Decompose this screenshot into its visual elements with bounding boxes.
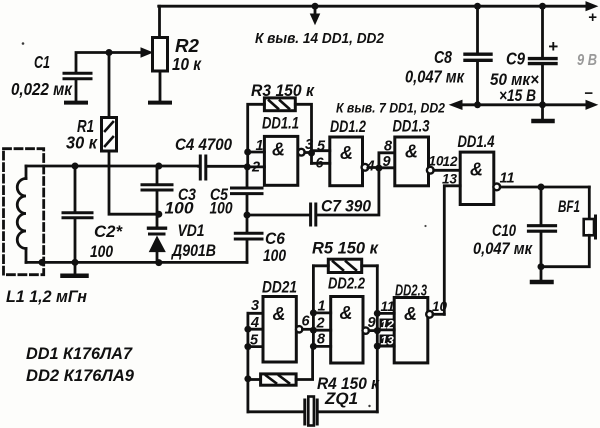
gate DD2.1 box	[263, 297, 296, 363]
wire BF1 right branch	[588, 187, 591, 218]
svg-text:0,047 мк: 0,047 мк	[473, 239, 533, 258]
svg-text:C4 4700: C4 4700	[175, 135, 232, 154]
svg-text:DD2 К176ЛА9: DD2 К176ЛА9	[26, 367, 135, 385]
node pin1	[310, 309, 317, 316]
svg-text:4: 4	[250, 315, 259, 331]
node L1 bottom	[39, 259, 46, 266]
pin 6 output bubble DD2.1	[296, 326, 302, 332]
pin 8 stub DD2.2	[313, 345, 330, 348]
svg-text:К выв. 7 DD1, DD2: К выв. 7 DD1, DD2	[336, 100, 445, 116]
pin 13 black DD2.3	[380, 335, 395, 346]
wire C7 to DD1.2 output node	[317, 169, 379, 215]
node top rail к выв.14	[312, 3, 319, 10]
wire R4 right leg	[296, 346, 313, 379]
wire C1 top to node	[76, 53, 108, 73]
svg-text:9: 9	[368, 315, 376, 331]
resistor R2	[153, 38, 168, 72]
node C9 bottom	[539, 101, 546, 108]
svg-text:0,047 мк: 0,047 мк	[405, 67, 465, 87]
svg-text:11: 11	[381, 299, 395, 314]
node DD1.1 out/DD1.2 in	[308, 150, 315, 157]
svg-text:С2*: С2*	[94, 223, 124, 241]
svg-text:5: 5	[250, 333, 259, 349]
node R3/pin1	[244, 149, 251, 156]
svg-text:8: 8	[384, 139, 393, 155]
svg-text:2: 2	[316, 316, 325, 332]
ground C10	[540, 267, 543, 280]
svg-text:1: 1	[318, 299, 326, 315]
svg-text:С7 390: С7 390	[321, 197, 371, 216]
ground C2	[74, 262, 77, 274]
svg-text:3: 3	[305, 137, 313, 153]
ground R2	[150, 101, 170, 105]
node C8 bottom	[474, 101, 481, 108]
wire R1 bottom down across main wire to VD1 node	[109, 151, 157, 214]
node pin13	[374, 343, 381, 350]
gate DD1.2 box	[330, 137, 363, 186]
wire R4 left lead	[248, 378, 261, 381]
svg-text:Д901В: Д901В	[170, 242, 216, 260]
svg-text:13: 13	[381, 334, 395, 348]
node pin2	[310, 327, 317, 334]
pin 9 stub DD1.3	[379, 166, 395, 169]
node DD1.2 out/C7/DD1.3 in	[375, 165, 382, 172]
svg-text:DD21: DD21	[262, 279, 297, 297]
node pin11	[374, 310, 381, 317]
svg-text:С10: С10	[492, 221, 516, 240]
svg-text:R2: R2	[175, 36, 199, 56]
svg-text:9: 9	[383, 154, 391, 170]
capacitor C6	[246, 215, 249, 262]
scan speck	[368, 405, 370, 407]
svg-text:С6: С6	[265, 230, 286, 248]
capacitor C10	[540, 187, 543, 267]
svg-text:+: +	[548, 37, 558, 56]
svg-text:DD1.4: DD1.4	[458, 132, 495, 151]
resistor R4	[261, 374, 297, 385]
pin 3 stub DD2.1	[248, 312, 263, 315]
wire minus rail	[461, 103, 588, 106]
wire R2 riser to rail	[158, 6, 161, 37]
gate DD2.3 box	[394, 298, 428, 363]
svg-text:0,022 мк: 0,022 мк	[11, 79, 73, 99]
svg-text:DD1.2: DD1.2	[330, 117, 366, 136]
svg-text:8: 8	[317, 332, 326, 348]
pin 11 output bubble DD1.4	[493, 184, 500, 191]
wire R5 leads	[313, 264, 377, 267]
pin 3 output bubble DD1.1	[298, 149, 305, 156]
wire DD2.1 input vertical	[246, 313, 249, 412]
capacitor C2	[74, 166, 77, 262]
wire R2 bottom	[159, 71, 162, 101]
pin 12 stub DD2.3	[377, 328, 394, 331]
svg-text:С9: С9	[506, 49, 525, 69]
node C10 top	[538, 184, 545, 191]
pin 8 stub DD1.3	[379, 153, 395, 168]
scan speck	[22, 42, 25, 45]
node pin8	[310, 343, 317, 350]
arrow right plus rail	[586, 2, 597, 11]
resistor R5	[328, 259, 361, 272]
node R1/C3/VD1	[155, 211, 162, 218]
pin 10 output bubble DD2.3	[426, 311, 433, 318]
svg-text:6: 6	[316, 156, 325, 172]
arrow left к выв.7	[450, 100, 462, 109]
pin 2 stub DD1.1	[248, 165, 265, 168]
wire DD1.3 out to DD1.4 pin12	[434, 169, 461, 172]
node C2 bottom	[72, 259, 79, 266]
svg-text:100: 100	[210, 200, 234, 218]
pin 12 black DD2.3	[380, 319, 395, 330]
node C5/C6/C7	[244, 212, 251, 219]
svg-text:11: 11	[500, 171, 515, 187]
pin 13 stub DD2.3	[377, 345, 394, 348]
svg-text:6: 6	[302, 314, 311, 330]
resistor R3	[264, 98, 295, 111]
svg-text:+: +	[588, 9, 597, 26]
svg-text:&: &	[470, 160, 483, 180]
wire node down to R1	[108, 53, 111, 118]
pin 5 stub DD2.1	[248, 345, 263, 348]
pin 6 stub DD1.2	[312, 162, 330, 165]
wire DD1.4 out to BF1	[500, 186, 589, 189]
ground C1	[66, 101, 86, 105]
capacitor C3	[156, 166, 159, 214]
svg-text:2: 2	[251, 160, 260, 176]
node C8 top	[474, 3, 481, 10]
gate DD1.3 box	[395, 137, 429, 186]
svg-text:&: &	[273, 304, 286, 324]
pin 5 stub DD1.2	[312, 149, 330, 152]
svg-text:DD2.2: DD2.2	[328, 276, 365, 293]
svg-text:4: 4	[366, 159, 375, 175]
wire ground bus bottom	[26, 261, 247, 264]
svg-text:С8: С8	[434, 47, 452, 67]
wire top power rail	[159, 5, 589, 8]
node C3 top	[155, 163, 162, 170]
svg-text:ZQ1: ZQ1	[324, 389, 358, 408]
pin 13 stub DD1.4 riser from DD2.3	[444, 186, 460, 314]
speaker BF1	[584, 219, 594, 235]
pin 1 stub DD1.1	[248, 151, 265, 154]
gate DD2.2 box	[331, 297, 363, 364]
svg-text:DD1 К176ЛА7: DD1 К176ЛА7	[26, 345, 133, 363]
wire main oscillator bus L1/C2/C3/C4	[26, 165, 199, 168]
node C4/C5/DD1.1 pin2	[244, 163, 251, 170]
svg-text:100: 100	[90, 243, 114, 261]
svg-text:С1: С1	[34, 52, 50, 72]
varicap VD1	[156, 214, 159, 227]
wire R5 right vertical down to bottom loop	[376, 266, 379, 412]
svg-text:&: &	[272, 140, 285, 160]
svg-text:13: 13	[442, 172, 458, 187]
svg-text:10 к: 10 к	[172, 54, 202, 74]
gate DD1.4 box	[460, 152, 494, 204]
svg-text:R3 150 к: R3 150 к	[251, 81, 315, 100]
pin 2 stub DD2.2	[313, 329, 330, 332]
svg-text:BF1: BF1	[558, 198, 580, 216]
node C10 bottom	[538, 263, 545, 270]
svg-text:DD2.3: DD2.3	[395, 283, 427, 300]
node C9 top	[539, 3, 546, 10]
svg-text:5: 5	[317, 139, 326, 155]
svg-text:×15 В: ×15 В	[499, 86, 536, 105]
capacitor C9 polarized	[541, 6, 544, 105]
pin 10 output bubble DD1.3	[427, 167, 434, 174]
svg-text:&: &	[340, 143, 353, 163]
svg-text:9 В: 9 В	[577, 52, 597, 69]
wire node to C7	[247, 214, 310, 217]
pin 9 output bubble DD2.2	[363, 327, 369, 333]
svg-text:DD1.1: DD1.1	[262, 114, 299, 133]
svg-text:&: &	[404, 304, 417, 324]
shield dashed box L1	[4, 149, 44, 275]
svg-text:L1 1,2 мГн: L1 1,2 мГн	[6, 288, 87, 306]
svg-text:VD1: VD1	[178, 222, 205, 240]
crystal ZQ1	[303, 400, 306, 424]
svg-text:12: 12	[381, 318, 395, 332]
wire arrow к выв.14	[314, 6, 317, 15]
scan speck	[424, 225, 426, 227]
wire C1 bottom	[75, 80, 78, 101]
svg-text:&: &	[340, 303, 353, 323]
inductor L1	[25, 166, 28, 179]
svg-text:12: 12	[443, 154, 459, 169]
capacitor C5	[246, 167, 249, 215]
pin 1 stub DD2.2	[313, 311, 330, 314]
capacitor C8	[476, 6, 479, 105]
svg-text:R5 150 к: R5 150 к	[312, 239, 379, 258]
svg-text:100: 100	[263, 247, 287, 265]
node VD1 bottom	[155, 259, 162, 266]
pin 4 output bubble DD1.2	[362, 164, 369, 171]
node pin4	[244, 326, 251, 333]
svg-text:3: 3	[251, 298, 259, 314]
svg-text:&: &	[405, 142, 418, 162]
node DD2.2 out	[374, 327, 381, 334]
svg-text:К выв. 14 DD1, DD2: К выв. 14 DD1, DD2	[255, 30, 385, 47]
capacitor C7	[311, 204, 316, 225]
svg-text:DD1.3: DD1.3	[393, 117, 430, 136]
wire node to R2 wiper arrow	[109, 51, 142, 54]
node R4 left	[244, 375, 251, 382]
svg-text:30 к: 30 к	[66, 133, 98, 153]
node C1/R2/R1 junction	[106, 49, 113, 56]
svg-text:10: 10	[432, 299, 448, 314]
wire DD2.2 input vertical / R5 left leg	[312, 266, 315, 347]
resistor R1	[102, 118, 117, 152]
ground C9	[541, 105, 544, 119]
wire R3 left leg	[248, 104, 265, 167]
svg-text:100: 100	[165, 200, 195, 218]
capacitor C1	[64, 73, 91, 78]
wire R3 right leg	[295, 104, 311, 163]
svg-text:−: −	[584, 85, 593, 102]
pin 4 stub DD2.1	[248, 328, 263, 331]
svg-text:1: 1	[256, 138, 264, 154]
arrow right minus rail	[586, 101, 597, 110]
wire bottom crystal loop	[248, 410, 304, 413]
node L1 top / C2	[72, 163, 79, 170]
node pin5	[244, 343, 251, 350]
pin 11 stub DD2.3	[377, 312, 394, 315]
op-amp DD1.1 gate box	[264, 136, 297, 185]
capacitor C4	[199, 165, 246, 168]
